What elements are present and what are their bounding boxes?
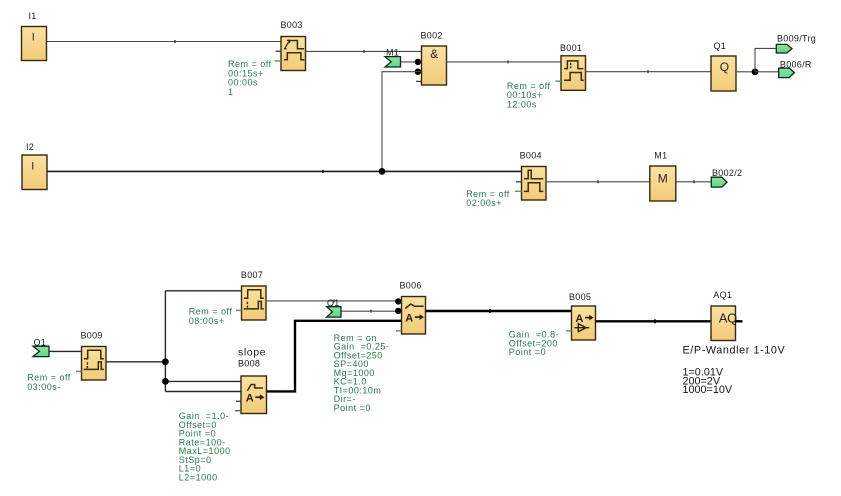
wire junction top to B007 pin1: [165, 290, 241, 292]
B003 parameter text: [228, 59, 272, 97]
svg-text:M: M: [658, 172, 668, 186]
svg-text:B004: B004: [520, 150, 542, 160]
input block I2: [22, 142, 47, 190]
svg-text:&: &: [430, 47, 438, 61]
svg-text:I1: I1: [29, 11, 37, 21]
wire AQ1 output stub: [736, 320, 743, 322]
input block I1: [22, 11, 47, 61]
wire junction column vertical: [164, 291, 166, 392]
svg-text:12:00s: 12:00s: [507, 100, 537, 110]
B005 parameter text: [509, 330, 559, 358]
svg-text:AQ: AQ: [719, 310, 737, 325]
amplifier block B005: [566, 292, 596, 340]
svg-text:slope: slope: [238, 346, 266, 358]
wire B007 to B006 pin1: [266, 299, 402, 302]
svg-text:M1: M1: [654, 151, 667, 161]
ramp block B008: [235, 346, 267, 413]
svg-text:B006: B006: [400, 280, 422, 290]
B006 parameter text: [334, 333, 390, 413]
svg-text:L2=1000: L2=1000: [179, 472, 218, 482]
wire M1 flag to B002 pin2: [401, 61, 422, 63]
svg-text:B008: B008: [238, 358, 260, 368]
marker block M1: [650, 151, 676, 201]
node B002 pin2: [415, 59, 421, 65]
wire Q1 flag to B006 pin2: [341, 310, 402, 313]
timer block B001: [555, 43, 585, 90]
svg-text:03:00s-: 03:00s-: [27, 382, 61, 392]
wire B005 to AQ1 (analog): [596, 319, 712, 323]
wire junction to B008 pin1: [165, 380, 241, 382]
timer block B004: [515, 150, 546, 200]
svg-text:I: I: [31, 161, 34, 173]
AND gate B002: [416, 31, 447, 85]
node B002 pin3: [415, 69, 421, 75]
svg-text:08:00s+: 08:00s+: [189, 316, 225, 326]
flag M1 (marker reference): [385, 48, 401, 67]
svg-text:A: A: [575, 313, 583, 325]
svg-text:1: 1: [228, 87, 234, 97]
flag B009/Trg: [776, 34, 816, 53]
svg-text:B002: B002: [421, 31, 443, 41]
svg-text:B007: B007: [241, 270, 263, 280]
wire Q1 flag to B009: [49, 350, 82, 352]
svg-text:B009/Trg: B009/Trg: [777, 34, 816, 44]
svg-text:AQ1: AQ1: [713, 290, 732, 300]
wire junction bottom to B008 pin2: [165, 391, 241, 393]
flag Q1 (input reference, middle): [327, 298, 341, 317]
flag B006/R: [779, 60, 812, 78]
svg-text:B001: B001: [560, 43, 582, 53]
B004 parameter text: [466, 189, 510, 208]
svg-text:B009: B009: [81, 331, 103, 341]
node junction B009 output: [162, 358, 169, 365]
svg-text:A: A: [405, 312, 413, 324]
B008 parameter text: [179, 411, 231, 482]
timer block B009: [76, 331, 106, 380]
svg-text:I2: I2: [26, 142, 34, 152]
flag B002/2: [711, 168, 742, 187]
output block Q1: [711, 41, 736, 91]
wire B008 output to B006 pin3 (analog): [267, 321, 402, 392]
svg-text:B005: B005: [569, 292, 591, 302]
wire B009 to junction column: [106, 361, 165, 363]
svg-text:Q: Q: [720, 60, 729, 74]
wire I2 to B004 pin1: [47, 170, 522, 173]
B007 parameter text: [189, 307, 233, 326]
wire I1 to B003 pin1: [47, 40, 282, 43]
wire B001 to Q1: [586, 70, 712, 73]
B009 parameter text: [27, 373, 71, 392]
wire B002 pin3 to I2 line: [382, 72, 422, 172]
svg-text:Point =0: Point =0: [509, 347, 546, 357]
svg-text:Point =0: Point =0: [334, 403, 371, 413]
svg-text:1000=10V: 1000=10V: [683, 384, 733, 396]
node B006 pin2: [395, 308, 401, 314]
PI controller block B006: [396, 280, 426, 334]
flag Q1 (input reference, bottom left): [33, 338, 49, 357]
svg-text:Q1: Q1: [714, 41, 727, 51]
comment text scaling values: [683, 367, 733, 397]
wire B002 to B001 pin1: [447, 60, 562, 63]
node junction B008 branch: [162, 378, 169, 385]
node B006 pin1: [395, 298, 401, 304]
svg-text:E/P-Wandler 1-10V: E/P-Wandler 1-10V: [683, 345, 786, 357]
wire B003 to B002 pin1: [306, 50, 422, 53]
node I2 line junction: [379, 168, 386, 175]
timer block B003: [275, 20, 306, 71]
wire junction up to B009/Trg flag: [755, 48, 776, 71]
svg-text:I: I: [32, 31, 35, 43]
wire B004 to M1: [546, 180, 650, 183]
wire Q1 to junction: [736, 71, 755, 73]
node Q1 output junction: [752, 68, 759, 75]
timer block B007: [236, 270, 266, 320]
svg-text:02:00s+: 02:00s+: [466, 198, 502, 208]
wire junction to B006/R flag: [755, 71, 779, 73]
B001 parameter text: [507, 81, 551, 110]
analog output block AQ1: [711, 290, 737, 341]
svg-text:B003: B003: [281, 20, 303, 30]
svg-text:A: A: [246, 392, 254, 404]
wire M1 to B002/2 flag: [676, 180, 712, 183]
wire B006 to B005 (analog): [426, 309, 572, 313]
